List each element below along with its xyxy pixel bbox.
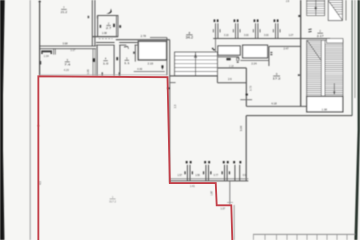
washbasin fixture <box>226 58 230 60</box>
washroom top corner <box>238 57 240 60</box>
left black photo edge band <box>0 0 5 240</box>
wall: stalls upper line <box>170 178 248 180</box>
wall: divider x114 <box>113 45 115 76</box>
wall y106 <box>246 105 306 107</box>
svg-text:3.00: 3.00 <box>244 35 249 37</box>
window pier 4 <box>275 23 277 38</box>
svg-text:4.29: 4.29 <box>64 68 70 72</box>
wall: room2 top <box>97 15 118 17</box>
glyph above stair right corner <box>212 48 214 50</box>
door dash bottom room5 <box>119 72 120 76</box>
svg-text:2.18: 2.18 <box>229 65 234 68</box>
wall: vertical x169.7 outer (runs to stalls) <box>169 40 171 183</box>
wall: vertical double wall right line <box>94 0 96 46</box>
right dark photo edge band <box>354 0 360 240</box>
svg-text:1.98: 1.98 <box>102 32 107 35</box>
room 2 label 2.7 <box>106 22 112 31</box>
wall: corridor2 lower seg1 <box>96 44 115 46</box>
door glyph right of closet <box>161 65 163 68</box>
closet box room <box>138 41 166 60</box>
niche dark block <box>41 50 52 52</box>
window pier 2 <box>235 23 237 38</box>
wall y115.5 outer <box>246 115 352 117</box>
lower flight treads right column <box>325 43 343 45</box>
svg-text:1.97: 1.97 <box>210 190 213 195</box>
svg-text:34.2: 34.2 <box>186 35 194 39</box>
outer border second line <box>354 0 356 98</box>
room 5 label 1.1 <box>124 56 130 65</box>
upper stringer <box>315 0 317 16</box>
building outer border right <box>351 0 353 116</box>
room under stairs <box>307 96 343 112</box>
svg-text:2.78: 2.78 <box>141 34 147 38</box>
drawing frame line left <box>29 0 31 240</box>
wall from pier1 down to stair <box>215 39 217 53</box>
stair arrow blob <box>315 7 317 9</box>
window pier 1 <box>215 23 217 38</box>
landing diagonal <box>329 1 343 20</box>
svg-text:317.2: 317.2 <box>109 200 116 204</box>
svg-text:4.49: 4.49 <box>137 67 143 71</box>
svg-text:2.47: 2.47 <box>283 46 289 50</box>
wall: window sill line top <box>213 38 301 40</box>
door tick on left wall <box>39 61 41 65</box>
wall stub <box>53 49 55 55</box>
door stub y99.7 <box>240 99 252 101</box>
stair break diagonal <box>308 41 321 60</box>
svg-text:1.0: 1.0 <box>103 61 109 65</box>
wall: room2 right inner <box>115 16 117 37</box>
svg-text:2.7: 2.7 <box>106 26 112 30</box>
svg-text:17.2: 17.2 <box>273 77 281 81</box>
wall under stair <box>170 75 218 77</box>
svg-text:3.00: 3.00 <box>264 35 269 37</box>
svg-text:3.98: 3.98 <box>62 41 68 45</box>
door swing glyph above room2 <box>106 8 111 13</box>
mark right of room2 wall <box>119 25 121 28</box>
wall: vertical x300.7 <box>300 0 302 106</box>
table column dividers <box>252 234 254 240</box>
wall: vertical x246 upper <box>245 68 247 106</box>
door tick on wall x93 <box>93 58 95 62</box>
wall: room2 bottom <box>92 36 118 38</box>
wall: room2 right outer <box>117 15 119 37</box>
svg-text:1.07: 1.07 <box>220 208 225 211</box>
approx glyph <box>308 28 311 31</box>
door tick room2 right <box>113 24 115 27</box>
stairwell lower flight outline <box>307 40 343 96</box>
stair stringer a <box>320 40 322 96</box>
wall: left outer wall of building <box>39 1 41 76</box>
svg-text:1.1: 1.1 <box>124 61 130 65</box>
stair down arrow <box>333 84 335 95</box>
svg-text:2.24: 2.24 <box>251 62 257 66</box>
tick x133 <box>133 52 135 54</box>
room 8 label 34.2 <box>186 31 194 40</box>
room 3 label 7.4 <box>64 58 70 67</box>
wall continuation below <box>92 49 94 76</box>
svg-text:1.73: 1.73 <box>248 85 252 91</box>
box1 fixture <box>218 46 240 55</box>
door swing glyph in corridor <box>124 45 128 48</box>
wall y82.7 <box>217 82 246 84</box>
svg-text:1.09: 1.09 <box>86 69 90 75</box>
door tick b <box>270 54 272 55</box>
wall: corridor2 lower seg2 <box>119 44 126 46</box>
svg-text:1.04: 1.04 <box>44 55 49 58</box>
red premises outline polyline <box>38 76 232 240</box>
tick on red vertical <box>167 87 170 89</box>
wall: washroom top <box>218 56 239 58</box>
wall: corridor2 upper seg2 <box>119 42 137 44</box>
stairwell upper flight outline <box>307 0 325 16</box>
gray above red bottom corner <box>227 202 233 204</box>
stair stringer <box>195 52 197 76</box>
wall: corridor wall lower line <box>40 48 96 50</box>
svg-text:2.19: 2.19 <box>148 61 154 65</box>
svg-text:2.17: 2.17 <box>317 34 324 38</box>
tick on x300.7 <box>298 15 300 17</box>
stall pillar 3 <box>224 165 226 181</box>
stair stringer b <box>324 40 326 96</box>
svg-text:1.17: 1.17 <box>70 49 75 52</box>
svg-text:1.57: 1.57 <box>178 175 183 177</box>
table at bottom right: top border <box>253 233 355 235</box>
stub right of red corner <box>170 82 176 84</box>
svg-text:2.9: 2.9 <box>228 77 232 81</box>
tiny mark left of room2 <box>97 16 98 19</box>
nick on red wall <box>37 125 39 126</box>
wall: room2 left <box>97 16 99 37</box>
room 4 label 1.0 <box>103 57 109 66</box>
room 7 label 21.2 <box>61 5 68 14</box>
svg-text:3.10: 3.10 <box>224 35 229 37</box>
stair treads <box>175 55 218 57</box>
door tick a <box>270 52 272 53</box>
svg-text:1.98: 1.98 <box>322 108 328 112</box>
svg-text:0.77: 0.77 <box>214 175 219 177</box>
stall pillar 4 <box>234 165 236 181</box>
svg-text:21.2: 21.2 <box>61 10 68 14</box>
stair arrow <box>194 54 196 58</box>
wall jog vertical <box>216 76 218 83</box>
bench line above red wall <box>134 71 165 73</box>
door tick x116 <box>116 57 118 60</box>
wall: stalls lower line <box>170 180 248 182</box>
wall: divider x120 <box>119 45 121 76</box>
door tick room2 left <box>100 25 102 28</box>
svg-text:1.07: 1.07 <box>289 35 294 37</box>
tiny mark near x88 <box>88 16 90 18</box>
wall: landing bottom y38.5 <box>301 38 330 40</box>
hall room label 317.2 <box>109 195 116 204</box>
svg-text:1.41: 1.41 <box>190 185 195 188</box>
wall seg y60.4 <box>240 59 268 61</box>
box2 fixture <box>243 45 268 58</box>
dashed opening line <box>99 38 113 40</box>
lower flight treads left column <box>307 41 322 43</box>
wall: divider x135 <box>134 45 136 62</box>
wall beside red lower vertical <box>233 205 235 240</box>
stall pillar 1 <box>186 165 188 181</box>
stall pillar 2 <box>205 165 207 181</box>
stair block left: outline <box>175 52 218 76</box>
landing label 2.17 <box>317 31 324 38</box>
wall: y37 inner line <box>150 37 167 39</box>
svg-text:4.18: 4.18 <box>271 102 277 106</box>
wall: corridor2 upper seg1 <box>96 42 115 44</box>
svg-text:5.04: 5.04 <box>239 125 243 131</box>
gray wall line above red top <box>40 74 167 76</box>
wall: vertical x246 lower <box>245 116 247 181</box>
stair platform box <box>327 39 343 43</box>
svg-text:1.5: 1.5 <box>173 104 177 108</box>
wall y46 <box>269 45 301 47</box>
toilet fixture <box>237 58 239 61</box>
wall: corridor2 lower seg3 <box>135 44 138 46</box>
wall: corridor wall upper line <box>40 45 96 47</box>
tick on x300.7 lower <box>298 74 300 76</box>
window pier 3 <box>255 23 257 38</box>
svg-text:1.56: 1.56 <box>195 175 200 177</box>
wall: vertical x269 <box>268 46 270 66</box>
tick on x246 <box>246 94 248 96</box>
door dash bottom room4 <box>102 72 103 76</box>
wall: small room left x97 <box>96 45 98 76</box>
landing treads <box>330 2 343 4</box>
svg-text:4.5: 4.5 <box>39 181 42 185</box>
wall: long horizontal y39 <box>116 39 170 41</box>
wall right of landing box <box>345 0 347 21</box>
wall: vertical double wall left line <box>91 0 93 46</box>
svg-text:7.4: 7.4 <box>64 63 70 67</box>
wall: vertical x167 inner <box>166 38 168 76</box>
wall: notch right side <box>229 181 231 204</box>
wall: corridor bottom y68 <box>218 67 246 69</box>
corner tick top-left <box>38 1 41 3</box>
room 9 label 17.2 <box>273 72 281 81</box>
stair landing box <box>328 0 342 21</box>
